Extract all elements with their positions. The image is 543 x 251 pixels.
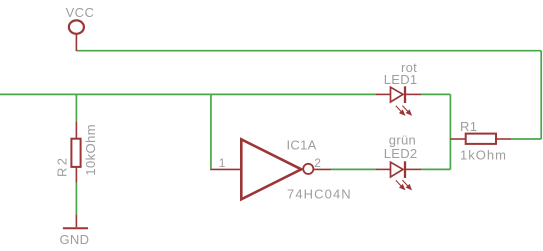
svg-text:1: 1 — [219, 156, 226, 170]
svg-text:IC1A: IC1A — [287, 138, 317, 153]
svg-text:74HC04N: 74HC04N — [287, 187, 352, 202]
svg-text:R2: R2 — [55, 156, 70, 177]
svg-text:2: 2 — [314, 156, 321, 170]
svg-text:1kOhm: 1kOhm — [460, 148, 507, 163]
svg-text:VCC: VCC — [66, 5, 95, 20]
svg-text:GND: GND — [60, 232, 90, 247]
svg-text:R1: R1 — [460, 119, 477, 134]
svg-text:LED2: LED2 — [384, 146, 418, 161]
svg-text:10kOhm: 10kOhm — [83, 124, 98, 176]
svg-text:LED1: LED1 — [384, 72, 418, 87]
